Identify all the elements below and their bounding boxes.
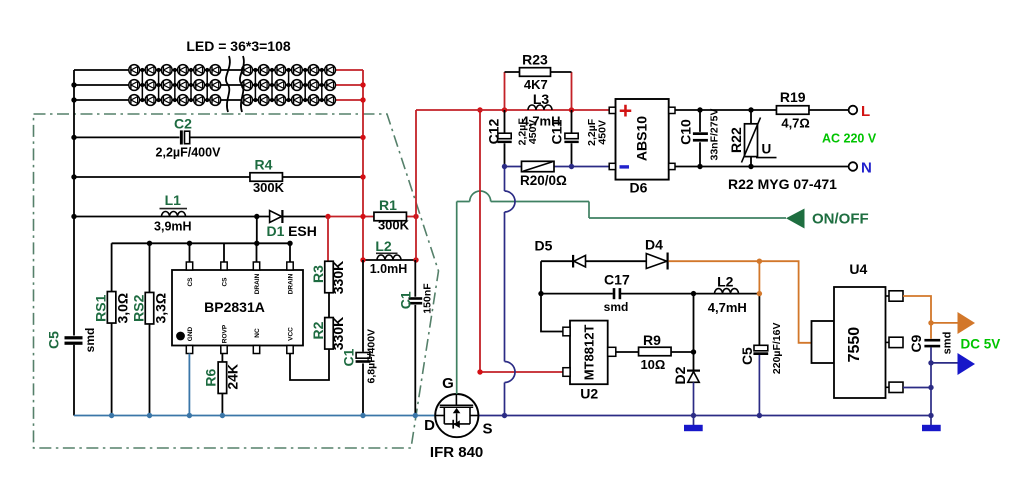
svg-text:CS: CS — [187, 277, 194, 287]
bridge - mark — [620, 165, 630, 168]
svg-text:10Ω: 10Ω — [640, 357, 665, 372]
resistor R20 (0 ohm) — [522, 161, 555, 171]
node RS1 rail — [109, 413, 114, 418]
resistor R2 — [325, 318, 334, 350]
IC U4 7550 body — [834, 287, 886, 398]
capacitor C17 — [613, 288, 616, 299]
ground symbol (left) — [693, 416, 695, 426]
svg-text:DC 5V: DC 5V — [961, 337, 1001, 352]
wire ground rail (dark blue) — [478, 415, 931, 417]
svg-text:150nF: 150nF — [421, 283, 433, 314]
svg-text:MT8812T: MT8812T — [582, 325, 597, 381]
IC U1 BP2831A body — [172, 270, 303, 346]
svg-text:220µF/16V: 220µF/16V — [771, 323, 783, 375]
wire AC L line — [675, 109, 849, 111]
svg-text:450V: 450V — [527, 120, 539, 145]
wire LED+ red bus (vertical) — [362, 70, 364, 260]
node row2-left — [71, 82, 76, 87]
diode D5 — [574, 255, 586, 267]
node row3-right — [360, 97, 365, 102]
node R9-D2 — [691, 349, 696, 354]
svg-text:VCC: VCC — [287, 327, 294, 341]
wire C9 to ground (blue) — [903, 347, 958, 415]
svg-text:D4: D4 — [645, 237, 663, 253]
svg-text:C12: C12 — [485, 118, 501, 144]
node DC- rail — [502, 413, 507, 418]
svg-text:R3: R3 — [310, 265, 326, 283]
wire HV rail (red) — [416, 109, 610, 111]
wire LED column tie — [321, 70, 323, 100]
wire D5-D4 row — [541, 260, 646, 262]
wire RS2 lower — [149, 324, 151, 416]
node C1-150nF rail — [413, 413, 418, 418]
node C10 bottom — [697, 164, 702, 169]
LED 18 — [210, 95, 221, 106]
wire R3-R2 — [328, 293, 330, 318]
wire L1-D1 row — [74, 216, 328, 218]
node C17 tap — [538, 291, 543, 296]
wire DC- hop over green — [505, 191, 516, 212]
svg-text:R22: R22 — [728, 127, 744, 153]
LED 25 — [275, 65, 286, 76]
svg-text:AC 220 V: AC 220 V — [822, 132, 877, 146]
IC U4 7550 tab — [812, 321, 835, 363]
node pin3 — [928, 385, 933, 390]
wire R23 left stub — [504, 72, 506, 110]
resistor R23 — [520, 68, 551, 77]
wire D5/C17 left branch — [541, 261, 694, 331]
svg-text:smd: smd — [604, 300, 629, 314]
wire R9 row — [616, 351, 694, 353]
LED 28 — [292, 65, 303, 76]
LED 33 — [308, 95, 319, 106]
wire R22 vertical — [750, 110, 752, 167]
node C12 bottom — [502, 164, 507, 169]
svg-text:R6: R6 — [203, 369, 219, 387]
svg-text:R23: R23 — [522, 52, 548, 68]
LED 19 — [242, 65, 253, 76]
wire DC- row (blue) — [505, 166, 610, 168]
inductor L3 — [528, 105, 552, 110]
wire LED column tie — [288, 70, 290, 100]
node row2-right — [360, 82, 365, 87]
IC U4 pins — [886, 295, 890, 297]
inductor L2 (4,7mH) — [715, 289, 739, 294]
svg-text:450V: 450V — [596, 120, 608, 145]
wire C11 stub — [571, 110, 573, 167]
LED 27 — [275, 95, 286, 106]
svg-text:GND: GND — [187, 326, 194, 341]
LED 20 — [242, 80, 253, 91]
wire L2 row — [694, 293, 760, 295]
svg-text:3,0Ω: 3,0Ω — [114, 293, 130, 324]
node C2-right — [360, 135, 365, 140]
svg-text:U4: U4 — [849, 261, 867, 277]
LED 2 — [129, 80, 140, 91]
diode D1 — [270, 211, 282, 223]
capacitor C1 (150nF) — [409, 297, 423, 300]
wire LED row 2 (black) — [74, 84, 336, 86]
capacitor C12 — [498, 133, 511, 139]
wire Vout (orange) — [903, 296, 958, 339]
wire R1 right red segment — [407, 216, 417, 218]
svg-text:7550: 7550 — [846, 327, 863, 363]
svg-text:C2: C2 — [174, 116, 192, 132]
DC 5V + arrow — [958, 312, 976, 334]
transistor Q1 IFR840 — [435, 394, 478, 437]
svg-text:1.0mH: 1.0mH — [370, 262, 408, 276]
svg-text:R2: R2 — [310, 321, 326, 339]
svg-text:S: S — [482, 421, 492, 438]
node D1-anode tap — [254, 214, 259, 219]
svg-text:330K: 330K — [330, 261, 346, 294]
node R22 top — [748, 107, 753, 112]
resistor R6 — [218, 362, 227, 394]
svg-text:R1: R1 — [379, 197, 397, 213]
svg-text:N: N — [861, 160, 872, 177]
svg-text:33nF/275V: 33nF/275V — [709, 109, 721, 161]
node L1-left — [71, 214, 76, 219]
svg-text:D5: D5 — [535, 238, 553, 254]
node GND rail — [187, 413, 192, 418]
node R1-left — [360, 214, 365, 219]
node RS2 top — [147, 241, 152, 246]
ON/OFF arrow — [786, 209, 805, 229]
wire DC+ (orange) — [669, 261, 812, 343]
inductor L2 (1.0mH) — [377, 255, 401, 260]
resistor R1 — [374, 212, 407, 221]
svg-text:NC: NC — [254, 328, 261, 338]
svg-text:+: + — [619, 98, 632, 124]
node gnd rail right — [928, 413, 933, 418]
wire AC N line — [675, 166, 849, 168]
svg-text:300K: 300K — [378, 218, 410, 233]
wire source rail (light blue) — [74, 415, 435, 417]
node RS2 rail — [147, 413, 152, 418]
svg-text:RS1: RS1 — [92, 294, 108, 321]
LED array break mark left — [226, 56, 230, 112]
LED 1 — [129, 65, 140, 76]
svg-text:R4: R4 — [255, 156, 273, 172]
node R4-left — [71, 174, 76, 179]
LED 9 — [161, 95, 172, 106]
wire RS1 lower — [111, 323, 113, 416]
terminal N — [849, 162, 858, 171]
wire C1 150nF vertical — [414, 260, 416, 416]
LED 12 — [178, 95, 189, 106]
svg-text:RS2: RS2 — [130, 294, 146, 321]
resistor R4 — [250, 173, 283, 182]
wire LED column tie — [271, 70, 273, 100]
IC U1 pins — [186, 262, 192, 270]
node R22 bottom — [748, 164, 753, 169]
resistor RS1 — [107, 292, 116, 324]
capacitor C1 (6,8µF/400V) — [356, 353, 370, 359]
LED array break mark right — [240, 56, 244, 112]
node C11 bottom — [569, 164, 574, 169]
resistor RS2 — [145, 292, 154, 324]
node L2-right — [413, 257, 418, 262]
svg-text:ON/OFF: ON/OFF — [812, 211, 869, 228]
svg-text:U: U — [762, 142, 772, 157]
wire left bus (vertical) — [73, 70, 75, 416]
svg-text:330K: 330K — [330, 317, 346, 350]
wire LED row 3 (red) — [336, 99, 363, 101]
IC U2 MT8812T — [570, 321, 608, 385]
diode D4 — [646, 254, 667, 269]
LED 7 — [161, 65, 172, 76]
svg-text:smd: smd — [941, 332, 953, 355]
node C10 top — [697, 107, 702, 112]
wire LED column tie — [206, 70, 208, 100]
wire LED column tie — [190, 70, 192, 100]
IC U1 pin1 marker — [176, 332, 185, 341]
resistor R9 — [639, 347, 672, 356]
LED 15 — [194, 95, 205, 106]
node C5 rail — [757, 413, 762, 418]
wire ON/OFF (green) — [457, 202, 786, 395]
wire LED column tie — [304, 70, 306, 100]
svg-text:G: G — [442, 375, 454, 392]
wire C2 row — [74, 136, 363, 138]
svg-text:6,8µF/400V: 6,8µF/400V — [366, 329, 378, 384]
LED 24 — [258, 95, 269, 106]
svg-text:C17: C17 — [604, 271, 630, 287]
node DC+ branch — [757, 259, 762, 264]
svg-text:IFR 840: IFR 840 — [430, 444, 483, 461]
svg-text:LED = 36*3=108: LED = 36*3=108 — [186, 38, 291, 54]
LED 34 — [325, 65, 336, 76]
wire D2 to ground rail — [693, 382, 695, 415]
wire R2 to VCC — [290, 349, 329, 380]
node L2-left — [360, 257, 365, 262]
wire HV+ vertical (red) — [480, 110, 563, 372]
svg-text:C5: C5 — [739, 347, 755, 365]
diode D2 — [687, 370, 700, 372]
wire ON/OFF hop over red — [470, 191, 491, 201]
wire LED row 3 (black) — [74, 99, 336, 101]
svg-text:R20/0Ω: R20/0Ω — [520, 173, 567, 188]
wire ROVP to R6 — [221, 354, 223, 362]
wire GND pin to rail — [188, 354, 190, 416]
svg-text:DRAIN: DRAIN — [287, 273, 294, 294]
wire C17/D2 vertical — [693, 294, 695, 371]
wire R23 right stub — [571, 72, 573, 110]
svg-text:C10: C10 — [677, 119, 693, 145]
capacitor C9 — [924, 339, 940, 342]
svg-text:BP2831A: BP2831A — [204, 299, 265, 315]
terminal L — [849, 106, 858, 115]
LED 10 — [178, 65, 189, 76]
node C11 top — [569, 107, 574, 112]
svg-text:ROVP: ROVP — [221, 324, 228, 343]
svg-text:4K7: 4K7 — [524, 77, 548, 92]
wire L2 to C5 — [758, 294, 760, 345]
capacitor C5 (220µF/16V) — [754, 345, 768, 351]
LED 31 — [308, 65, 319, 76]
svg-text:L1: L1 — [165, 192, 182, 208]
svg-text:D1: D1 — [267, 223, 285, 239]
wire DC- hop over red — [505, 362, 516, 383]
module boundary (dash-dot) — [34, 114, 439, 448]
resistor R19 — [776, 106, 809, 115]
node C12 top — [502, 107, 507, 112]
LED 36 — [325, 95, 336, 106]
node R3 tap — [325, 214, 330, 219]
svg-text:smd: smd — [83, 328, 97, 353]
wire C10 vertical — [699, 110, 701, 167]
LED 8 — [161, 80, 172, 91]
wire C5 to ground rail — [758, 355, 760, 416]
svg-text:24K: 24K — [225, 364, 241, 390]
LED 14 — [194, 80, 205, 91]
LED 30 — [292, 95, 303, 106]
LED 26 — [275, 80, 286, 91]
LED 29 — [292, 80, 303, 91]
LED 21 — [242, 95, 253, 106]
svg-text:C1: C1 — [397, 291, 413, 309]
wire LED row 2 (red) — [336, 84, 363, 86]
node C9 gnd — [928, 360, 933, 365]
wire C1 branch vertical — [362, 260, 364, 416]
LED 3 — [129, 95, 140, 106]
node row3-left — [71, 97, 76, 102]
svg-text:C5: C5 — [46, 331, 62, 349]
capacitor C10 — [693, 132, 708, 135]
varistor R22 — [745, 124, 758, 157]
svg-text:C11: C11 — [548, 119, 564, 144]
svg-text:CS: CS — [221, 277, 228, 287]
svg-text:R9: R9 — [643, 332, 661, 348]
node DRAIN2 top — [287, 241, 292, 246]
resistor R3 — [325, 261, 334, 293]
bridge rectifier D6 ABS10 body — [616, 99, 669, 180]
capacitor C5 smd — [65, 336, 83, 339]
LED 13 — [194, 65, 205, 76]
node Vout — [928, 320, 933, 325]
wire R1/L2 to C1 red vertical — [415, 110, 417, 260]
inductor L1 — [162, 212, 186, 217]
LED 4 — [145, 65, 156, 76]
LED 22 — [258, 65, 269, 76]
svg-text:ESH: ESH — [288, 223, 317, 239]
node R6 rail — [220, 413, 225, 418]
LED 6 — [145, 95, 156, 106]
LED 5 — [145, 80, 156, 91]
svg-text:L3: L3 — [533, 91, 550, 107]
svg-text:L: L — [861, 103, 870, 120]
wire LED column tie — [174, 70, 176, 100]
LED 35 — [325, 80, 336, 91]
svg-text:U2: U2 — [580, 386, 598, 402]
wire R4 row — [74, 176, 363, 178]
svg-text:R22 MYG 07-471: R22 MYG 07-471 — [728, 176, 837, 192]
node DC+ L2 — [757, 291, 762, 296]
wire C12 stub — [504, 110, 506, 167]
wire R23 leads — [505, 71, 572, 73]
node CS1 top — [187, 241, 192, 246]
wire R6 to rail — [221, 394, 223, 416]
node D2 rail — [691, 413, 696, 418]
svg-text:ABS10: ABS10 — [634, 116, 650, 161]
LED 11 — [178, 80, 189, 91]
svg-text:C9: C9 — [908, 334, 924, 352]
svg-text:L2: L2 — [375, 238, 392, 254]
LED 17 — [210, 80, 221, 91]
capacitor C11 — [565, 133, 578, 139]
wire LED row 1 (black) — [74, 69, 336, 71]
wire D1-R1 red segment — [328, 216, 374, 218]
node C2-left — [71, 135, 76, 140]
capacitor C2 — [180, 130, 183, 144]
LED 32 — [308, 80, 319, 91]
svg-text:D: D — [424, 417, 435, 434]
node R1-right — [413, 214, 418, 219]
svg-text:D6: D6 — [630, 180, 648, 196]
wire L2 row — [363, 259, 416, 261]
node L2 left — [691, 291, 696, 296]
svg-text:4,7mH: 4,7mH — [708, 300, 747, 315]
svg-text:R19: R19 — [780, 89, 806, 105]
wire LED column tie — [141, 70, 143, 100]
wire CS/DRAIN header row — [112, 217, 290, 293]
LED 16 — [210, 65, 221, 76]
DC 5V - arrow — [958, 353, 976, 375]
node HV+ corner — [477, 369, 482, 374]
bridge D6 pins — [609, 107, 615, 113]
node HV+ top — [477, 107, 482, 112]
svg-text:300K: 300K — [253, 180, 285, 195]
wire LED column tie — [158, 70, 160, 100]
svg-text:2,2µF/400V: 2,2µF/400V — [156, 146, 222, 160]
svg-text:4,7Ω: 4,7Ω — [781, 116, 810, 131]
svg-text:DRAIN: DRAIN — [254, 273, 261, 294]
node C1-rail — [360, 413, 365, 418]
svg-text:D2: D2 — [672, 366, 688, 384]
wire R3 red feed — [327, 217, 329, 262]
ground symbol (right) — [930, 416, 932, 426]
wire DC- vertical (blue) — [504, 167, 506, 416]
wire LED row 1 (red) — [336, 69, 363, 71]
svg-text:3,3Ω: 3,3Ω — [152, 293, 168, 324]
svg-text:3,9mH: 3,9mH — [154, 220, 192, 234]
wire LED column tie — [254, 70, 256, 100]
node R4-right — [360, 174, 365, 179]
node DRAIN tap — [254, 241, 259, 246]
LED 23 — [258, 80, 269, 91]
svg-text:L2: L2 — [717, 274, 734, 290]
